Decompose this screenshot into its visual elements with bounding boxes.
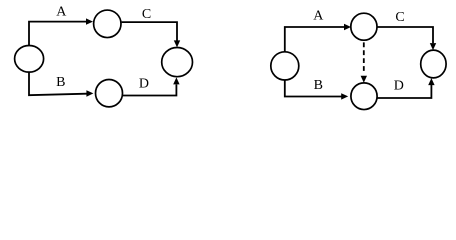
svg-text:D: D	[139, 76, 149, 91]
svg-text:C: C	[395, 10, 404, 25]
svg-text:B: B	[314, 78, 323, 93]
svg-text:A: A	[56, 5, 67, 20]
svg-text:A: A	[313, 9, 324, 24]
svg-text:D: D	[394, 79, 404, 94]
svg-text:C: C	[142, 7, 151, 22]
svg-text:B: B	[56, 75, 65, 90]
